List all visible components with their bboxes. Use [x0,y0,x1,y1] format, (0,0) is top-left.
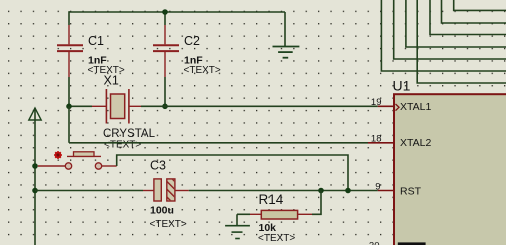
resistor R14 [237,210,312,219]
wire bundle 4 (deep one, turns at y=83) [417,0,506,83]
XTAL1 input chevron [396,104,400,111]
crystal X1 [92,89,141,124]
svg-text:U1: U1 [393,78,411,94]
svg-text:20: 20 [369,241,380,245]
node junction crystal right [162,104,168,110]
svg-text:XTAL1: XTAL1 [400,101,431,113]
svg-text:C1: C1 [88,34,104,48]
wire C2 top lead green [164,11,166,25]
svg-text:RST: RST [400,185,422,197]
node junction button loop on RST row [345,188,351,194]
wire button to RST loop [117,155,348,191]
svg-text:<TEXT>: <TEXT> [150,219,187,230]
button (push switch) [38,152,117,169]
ground stem top right [284,12,286,47]
svg-text:C3: C3 [150,159,166,173]
svg-text:9: 9 [375,181,380,192]
pin stub XTAL2 pin 18 [368,142,394,144]
svg-text:19: 19 [371,97,382,108]
wire bundle 7 [454,0,506,10]
wire R14 right lead up to RST [312,191,321,215]
wire RST row to chip [189,190,378,192]
svg-text:C2: C2 [184,34,200,48]
wire top net C1-C2-ground horizontal [69,11,285,13]
node junction VCC RST row [32,188,38,194]
wire bundle 6 [442,0,506,23]
wire C1 bottom lead green [68,77,70,106]
wire C2 bottom lead green [164,77,166,106]
svg-text:X1: X1 [104,73,119,87]
capacitor C3 electrolytic [143,179,189,201]
power VCC arrow [29,108,41,120]
svg-text:CRYSTAL: CRYSTAL [103,128,156,140]
svg-text:<TEXT>: <TEXT> [184,65,221,76]
capacitor C2 [153,25,179,77]
node junction top at C2 [162,9,168,15]
node junction crystal left [66,104,72,110]
wire XTAL1 net to chip [141,105,378,107]
wire RST row from VCC [35,190,143,192]
wire bundle 3 [406,0,506,47]
wire XTAL2 net vertical from C1 junction [68,106,70,143]
wire crystal row left [69,105,92,107]
ground bar inside chip bottom (pin 20 marker) [398,242,426,245]
wire C1 top lead green [68,11,70,25]
wire XTAL2 net horizontal [69,142,368,144]
wire bundle 2 [394,0,506,59]
capacitor C1 [57,25,83,77]
button red indicator [54,151,62,159]
wire bundle 1 (leftmost, turns at y=71) [381,0,506,71]
svg-text:XTAL2: XTAL2 [400,137,431,149]
svg-text:100u: 100u [150,205,174,217]
svg-text:<TEXT>: <TEXT> [258,233,295,244]
wire VCC vertical [34,108,36,245]
svg-text:R14: R14 [259,192,284,207]
svg-text:<TEXT>: <TEXT> [104,139,141,150]
wire bundle 5 [430,0,506,35]
node junction VCC button row [32,163,38,169]
ground symbol top right [273,47,300,58]
op IC U1 body [394,94,506,245]
svg-text:18: 18 [371,133,382,144]
pin stub RST pin 9 [378,190,394,192]
ground symbol at R14 [225,226,250,239]
pin stub XTAL1 pin 19 [378,105,394,107]
wire R14 left to ground [236,214,238,225]
node junction R14 on RST row [318,188,324,194]
